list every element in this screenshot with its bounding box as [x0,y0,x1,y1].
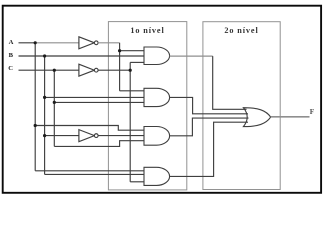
wire: C branch to gate G2 bottom input [54,101,144,103]
node: B junction 2 [43,96,46,99]
AND gate G1 [144,47,170,65]
wire: input B to gate G1 middle input [19,55,145,57]
OR gate G5 [243,108,270,127]
wire: A-bar vertical bus [119,43,121,91]
wire: U1 output (gray) [98,42,120,44]
inverter U1 (A') [79,37,95,49]
AND gate G3 [144,127,170,146]
wire: U3 output to gate G3 middle input [98,135,144,137]
svg-text:B: B [9,52,14,59]
wire: A branch to gate G4 top input [35,170,144,172]
inverter U3 (B') [79,130,95,142]
box: 2o nivel (second level) [203,22,280,190]
wire: A-bar branch to gate G1 top input [120,50,144,52]
node: B junction 3 [43,134,46,137]
inverter U2 (C') [79,64,95,76]
wire: G4 output to OR input 4 [170,122,248,176]
wire: input A [19,42,36,44]
wire: U2 output to C-bar bus [98,69,130,71]
svg-text:C: C [8,65,13,72]
wire: C branch to gate G3 bottom input [54,141,144,147]
wire: input C [19,69,80,71]
wire: G1 output (gray) [170,55,213,57]
node: C junction 2 [53,101,56,104]
wire: B branch to inverter U3 [45,135,79,137]
wire: G1 output riser to OR input 1 [213,56,247,109]
wire: C-bar branch to gate G1 bottom input [130,61,144,63]
node: A junction [34,41,37,44]
wire: B vertical bus [44,56,46,174]
wire: A to inverter U1 (gray) [35,42,79,44]
svg-text:A: A [9,39,14,46]
wire: B branch to gate G4 middle input [45,173,144,175]
svg-text:F: F [310,108,315,116]
wire: output F (gray) [271,116,310,118]
AND gate G2 [144,88,170,106]
wire: C vertical bus [53,70,55,146]
wire: C-bar branch to gate G4 bottom input [130,181,144,183]
wire: C-bar vertical bus [129,62,131,181]
wire: G2 output to OR input 2 [169,97,248,113]
box: 1o nivel (first level) [108,22,186,190]
wire: A vertical bus [34,43,36,171]
wire: B branch to gate G2 middle input [45,96,144,98]
node: C-bar junction [129,69,132,72]
outer border frame [3,6,321,193]
svg-text:1o nível: 1o nível [130,26,164,35]
node: A-bar junction [118,49,121,52]
wire: A-bar to gate G2 top input [120,90,144,92]
wire: G3 output to OR input 3 [169,118,248,136]
node: A junction 2 [34,124,37,127]
node: C junction [53,69,56,72]
node: B junction [43,54,46,57]
svg-text:2o nível: 2o nível [224,26,258,35]
wire: A branch to gate G3 top input [35,126,144,131]
AND gate G4 [144,167,170,185]
